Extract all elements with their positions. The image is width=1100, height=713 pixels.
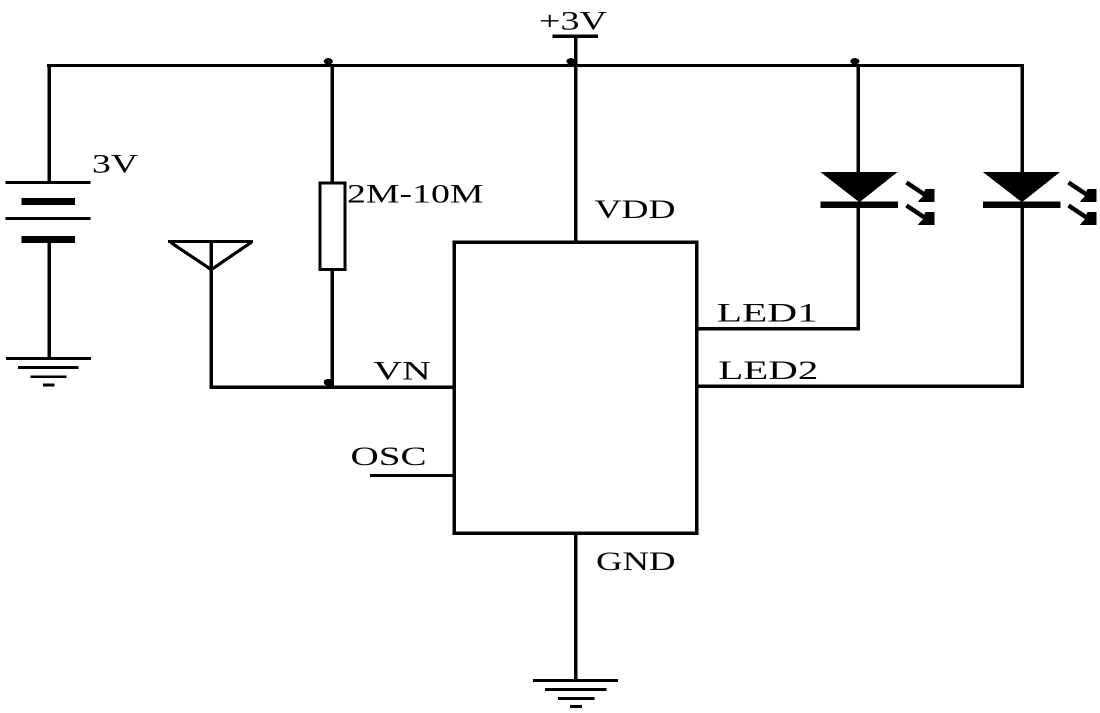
ground symbol under battery: bar 1 (6, 357, 91, 360)
wire: top +3V bus from battery to LED2 branch (47, 64, 1024, 67)
node: junction dot VDD on +3V bus (566, 58, 575, 64)
ground symbol under battery: bar 2 (18, 366, 79, 369)
op-amp U1 IC body rectangle (454, 242, 697, 533)
wire: GND lead from IC bottom (574, 533, 578, 680)
wire: battery negative lead to ground (47, 242, 51, 358)
node: junction dot resistor top on +3V bus (324, 58, 333, 64)
battery BT1 plate long top (6, 181, 91, 184)
battery BT1 plate long lower (6, 217, 91, 220)
LED D1 emission arrow upper (907, 183, 935, 202)
svg-text:2M-10M: 2M-10M (347, 180, 484, 209)
antenna E1 left diagonal (171, 242, 212, 269)
antenna E1 top bar (168, 240, 253, 243)
svg-text:VN: VN (373, 356, 431, 385)
svg-text:GND: GND (596, 547, 676, 576)
wire: OSC pin stub (370, 474, 454, 477)
LED D1 emission arrow lower (907, 206, 935, 225)
ground symbol under battery: bar 4 (43, 383, 55, 386)
LED D2 emission arrow upper (1069, 183, 1097, 202)
wire: VDD lead from +3V bar to IC top (574, 38, 578, 242)
wire: battery positive lead (left vertical) (47, 64, 51, 182)
wire: LED1 pin net from IC to LED1 cathode branch (697, 327, 860, 330)
wire: LED2 cathode lead down to LED2 net (1020, 208, 1024, 388)
antenna E1 mast (210, 240, 213, 388)
LED D2 cathode bar (983, 202, 1061, 209)
ground symbol at GND: bar 3 (558, 697, 594, 700)
svg-text:LED2: LED2 (718, 356, 818, 385)
resistor R1 body 2M-10M (320, 183, 345, 270)
battery BT1 plate short thick lower (22, 236, 76, 243)
svg-text:+3V: +3V (539, 7, 607, 36)
wire: LED1 anode lead from +3V bus (856, 64, 860, 173)
power +3V terminal bar (553, 35, 599, 38)
ground symbol under battery: bar 3 (31, 375, 67, 378)
wire: LED2 anode lead from +3V bus (1020, 64, 1024, 173)
svg-text:OSC: OSC (351, 442, 427, 471)
node: junction dot LED1 branch on +3V bus (850, 58, 859, 64)
battery BT1 plate short thick upper (22, 198, 76, 205)
LED D2 emission arrow lower (1069, 206, 1097, 225)
ground symbol at GND: bar 2 (545, 688, 606, 691)
svg-text:LED1: LED1 (717, 298, 818, 327)
node: junction dot resistor bottom on VN net (324, 379, 333, 386)
wire: VN net from antenna to IC pin VN (210, 386, 454, 389)
wire: LED1 cathode lead down to LED1 net (856, 208, 860, 331)
ground symbol at GND: bar 4 (570, 705, 582, 708)
LED D2 triangle (anode) (983, 172, 1060, 202)
svg-text:3V: 3V (92, 150, 138, 179)
ground symbol at GND: bar 1 (533, 679, 618, 682)
svg-text:VDD: VDD (595, 195, 676, 224)
LED D1 triangle (anode) (820, 172, 897, 202)
wire: resistor R1 bottom lead to VN net (331, 270, 334, 388)
antenna E1 right diagonal (212, 242, 252, 269)
wire: resistor R1 top lead (331, 64, 334, 182)
LED D1 cathode bar (820, 202, 898, 209)
wire: LED2 pin net from IC to LED2 cathode branch (697, 385, 1024, 388)
